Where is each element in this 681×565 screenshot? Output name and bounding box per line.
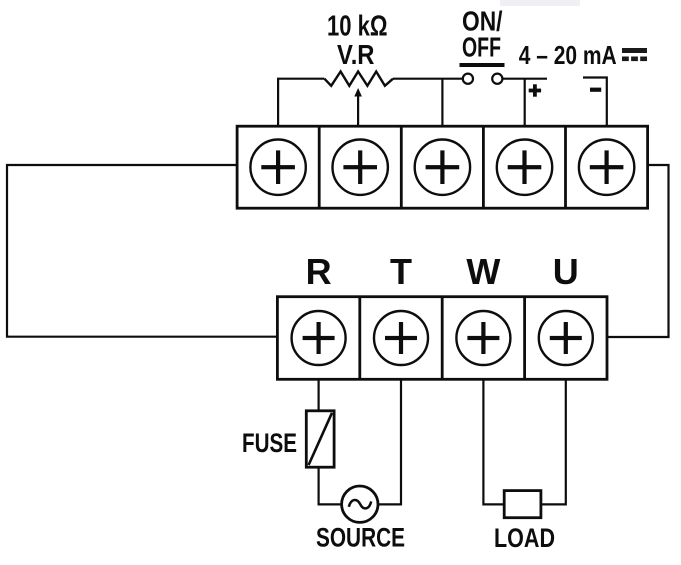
svg-text:T: T <box>390 251 412 292</box>
wire: load to U terminal <box>541 379 566 504</box>
minus polarity mark <box>590 88 601 92</box>
svg-text:10 kΩ: 10 kΩ <box>327 11 388 43</box>
TB1 cell divider 1 <box>318 126 321 208</box>
wire: terminal 1 stub up and over to potentiometer left end <box>278 79 324 126</box>
svg-text:W: W <box>466 251 500 292</box>
AC source (sine generator) <box>342 486 378 522</box>
svg-text:4 – 20 mA: 4 – 20 mA <box>519 40 617 70</box>
switch S1 actuator bar (underline) <box>460 63 505 67</box>
svg-text:R: R <box>306 251 332 292</box>
plus polarity mark <box>529 84 541 96</box>
TB2 cell divider 1 <box>358 297 361 380</box>
terminal block TB2 outer frame <box>277 297 607 380</box>
svg-text:OFF: OFF <box>462 32 501 63</box>
TB2 screw terminal T <box>374 311 428 365</box>
TB1 screw terminal 3 <box>415 140 470 195</box>
wire: terminal 4 stub up to switch output wire <box>524 79 526 126</box>
fuse F1 body <box>306 411 334 467</box>
svg-text:U: U <box>553 251 579 292</box>
wire: R terminal down to fuse <box>318 379 320 411</box>
switch S1 contact right <box>492 74 502 84</box>
TB1 cell divider 2 <box>400 126 403 208</box>
TB1 screw terminal 2 <box>333 140 388 195</box>
wire: fuse down and over to AC source <box>319 467 342 504</box>
wire: left loop from TB1 terminal 1 side to TB2 R side <box>7 165 277 337</box>
TB1 cell divider 4 <box>564 126 567 208</box>
svg-text:LOAD: LOAD <box>494 523 555 553</box>
TB1 cell divider 3 <box>482 126 485 208</box>
TB2 screw terminal U <box>539 311 593 365</box>
svg-text:FUSE: FUSE <box>242 428 297 458</box>
potentiometer VR1 (10 kOhm) zigzag body <box>324 72 393 86</box>
wire: potentiometer right end to switch <box>393 78 463 80</box>
DC supply symbol (solid bar over dashes) <box>622 48 647 61</box>
wire: AC source up to T terminal <box>378 379 401 504</box>
wire: W terminal down and over to load <box>483 379 504 504</box>
TB2 screw terminal R <box>292 311 346 365</box>
terminal block TB1 outer frame <box>237 126 647 208</box>
wire: terminal 3 stub up to pot-switch wire (junction) <box>441 79 443 126</box>
TB1 screw terminal 5 <box>579 140 634 195</box>
TB2 screw terminal W <box>456 311 510 365</box>
wire: minus lead bar into terminal 5 <box>583 78 607 127</box>
potentiometer wiper arrow from terminal 2 <box>354 88 362 126</box>
switch S1 contact left <box>463 74 473 84</box>
load resistor body <box>504 491 541 518</box>
TB2 cell divider 2 <box>441 297 444 380</box>
TB2 cell divider 3 <box>523 297 526 380</box>
TB1 screw terminal 1 <box>250 140 305 195</box>
svg-text:SOURCE: SOURCE <box>316 523 405 553</box>
svg-text:V.R: V.R <box>337 39 375 70</box>
wire: right loop from TB1 terminal 5 side to TB2 U side <box>607 165 669 337</box>
wire: switch output over terminal 4 with overhang <box>502 78 547 80</box>
TB1 screw terminal 4 <box>497 140 552 195</box>
